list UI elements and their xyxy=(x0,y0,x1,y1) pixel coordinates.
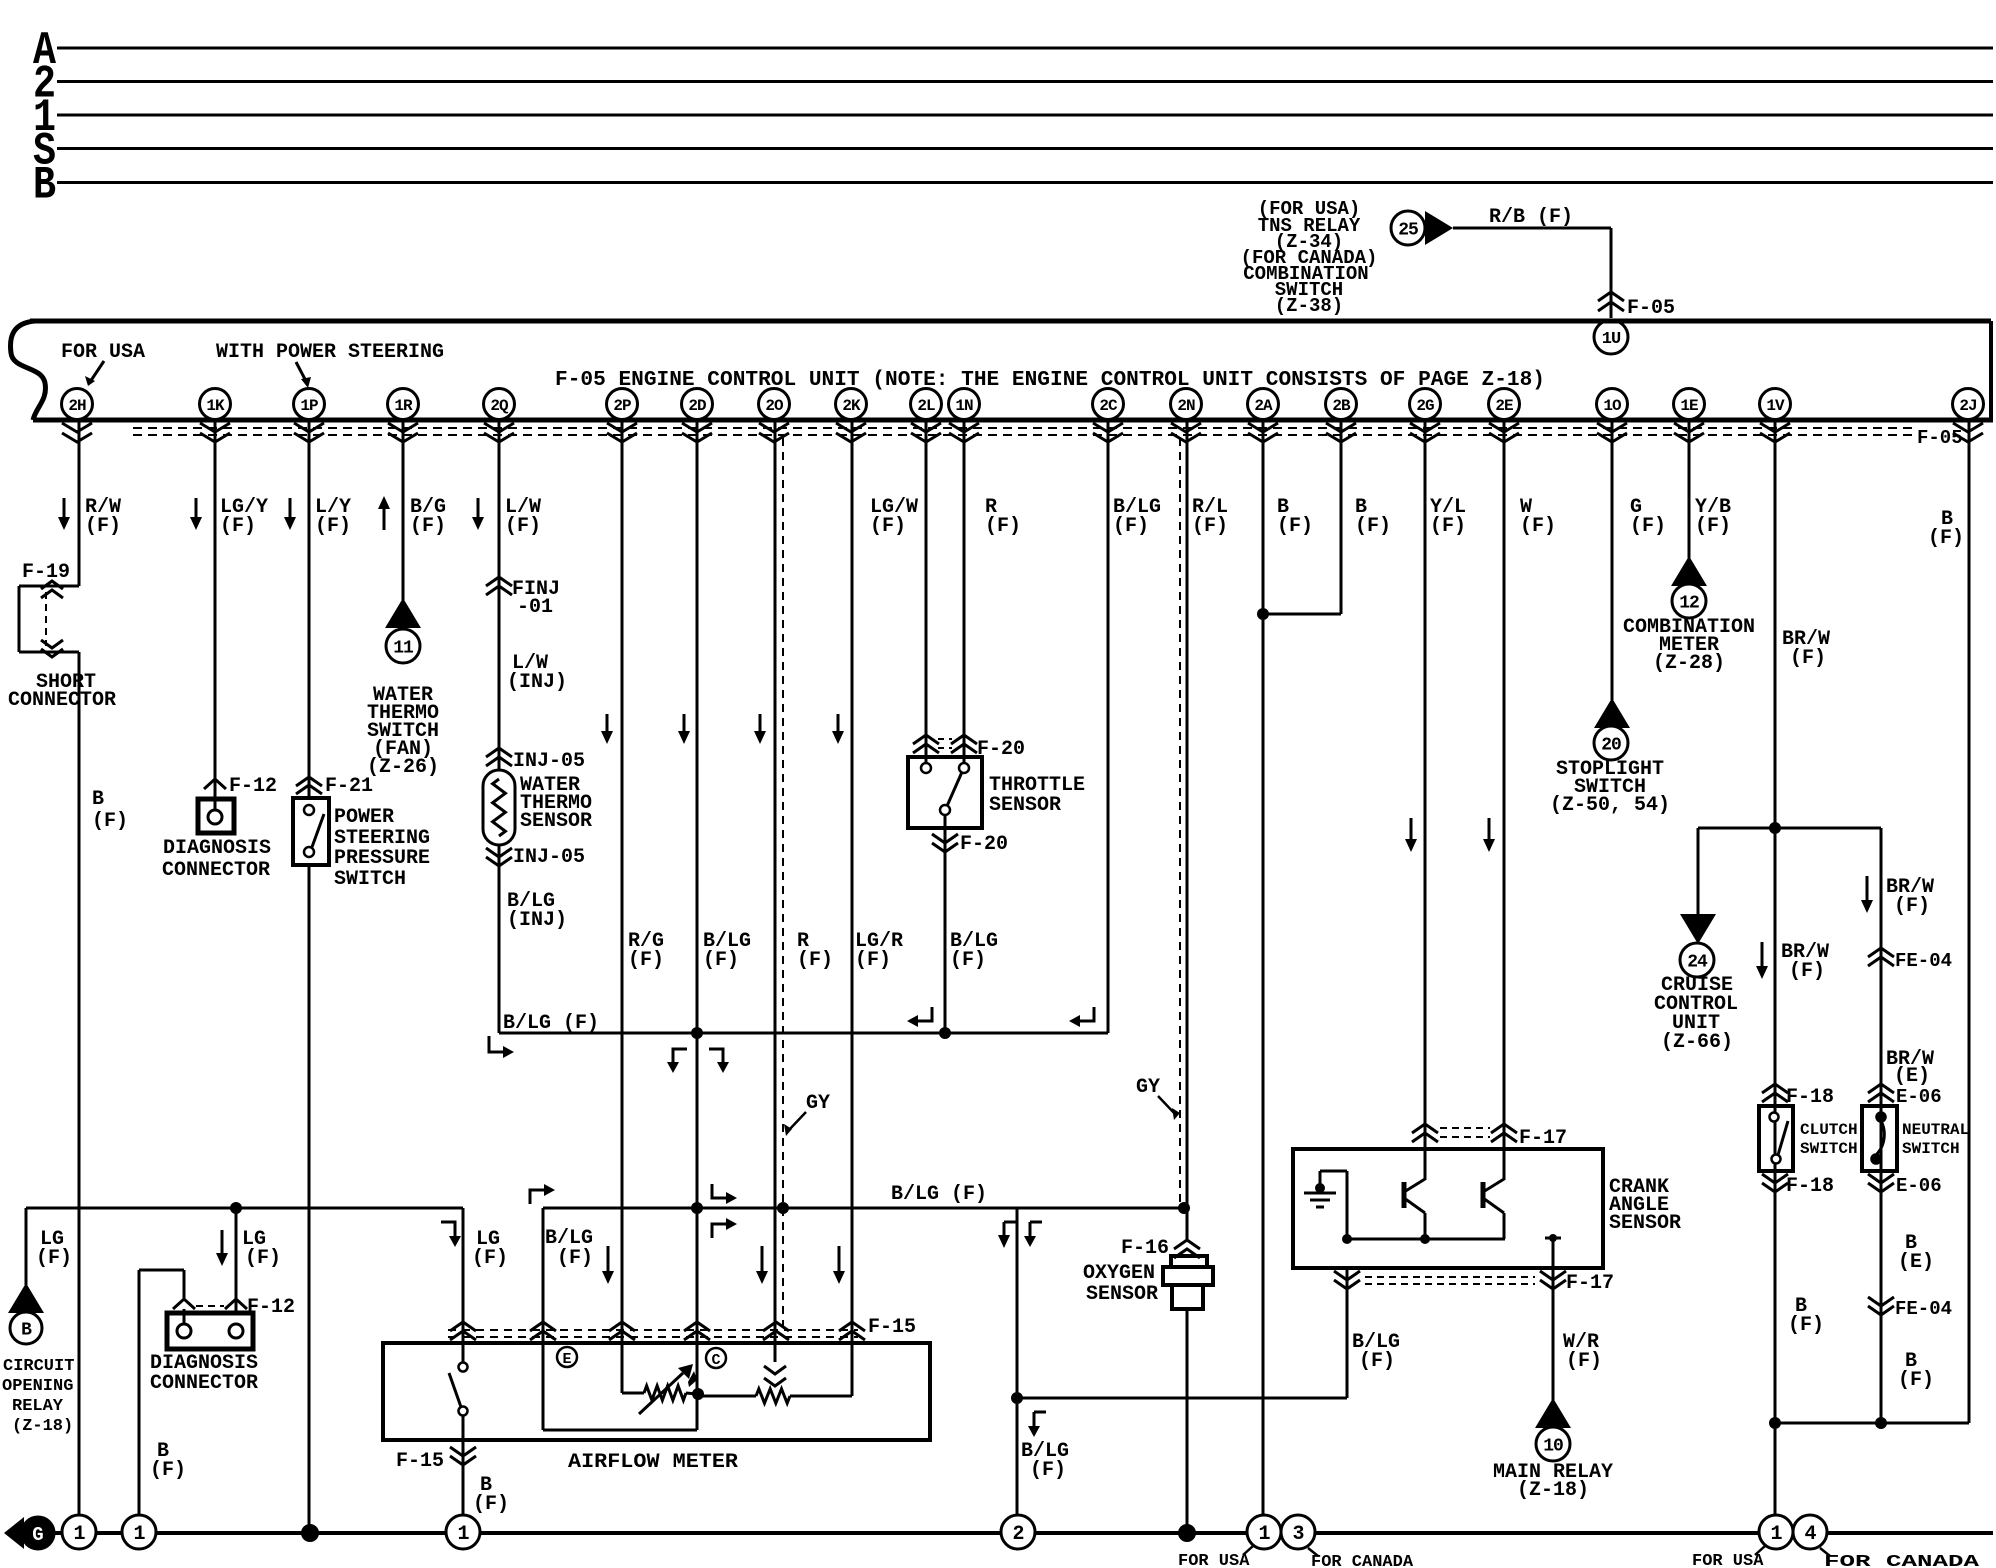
label BR/W (E) xyxy=(1886,1048,1934,1088)
junction 2D at main bus xyxy=(691,1202,703,1214)
svg-text:-01: -01 xyxy=(517,596,553,619)
connector chevrons at pin 1E xyxy=(1674,423,1704,442)
page connector 20 stoplight switch xyxy=(1594,698,1630,760)
page connector 11 water thermo switch xyxy=(385,598,421,663)
junction 2D at B/LG bus xyxy=(691,1027,703,1039)
svg-text:1O: 1O xyxy=(1603,397,1622,415)
svg-text:(F): (F) xyxy=(950,949,986,972)
wire 2J vertical B xyxy=(1968,420,1971,1423)
label BR/W (F) neutral xyxy=(1886,876,1934,918)
arrow down on 2G xyxy=(1405,818,1417,852)
svg-text:(F): (F) xyxy=(1566,1350,1602,1373)
label NEUTRAL SWITCH xyxy=(1902,1121,1969,1158)
label R (F) on 1N xyxy=(985,496,1021,538)
wire oxygen to ground bus xyxy=(1186,1309,1189,1533)
connector chevrons at pin 2O xyxy=(759,423,789,442)
svg-text:(Z-66): (Z-66) xyxy=(1661,1031,1733,1054)
connector F-16 xyxy=(1121,1237,1200,1260)
connector F-12 upper xyxy=(204,775,277,798)
ECU pin 1N xyxy=(949,389,980,420)
label LG (F) diagnosis xyxy=(242,1228,281,1270)
node 1U xyxy=(1594,320,1628,354)
svg-text:1U: 1U xyxy=(1602,330,1621,349)
label WATER THERMO SENSOR xyxy=(520,774,592,833)
label OXYGEN SENSOR xyxy=(1083,1262,1158,1306)
ECU pin 2A xyxy=(1248,389,1279,420)
label FOR CANADA left xyxy=(1308,1548,1414,1568)
svg-text:(Z-28): (Z-28) xyxy=(1653,652,1725,675)
connector F-21 xyxy=(296,775,373,798)
corner marker at oxygen drop left xyxy=(998,1222,1016,1248)
ruler line 1 xyxy=(33,92,1993,144)
svg-text:E: E xyxy=(562,1351,571,1368)
label R (F) mid 2O xyxy=(797,930,833,972)
label MAIN RELAY (Z-18) xyxy=(1493,1461,1613,1502)
svg-text:B: B xyxy=(33,160,56,212)
svg-text:2: 2 xyxy=(1012,1523,1023,1546)
svg-text:F-17: F-17 xyxy=(1519,1127,1567,1150)
wire neutral branch BR/W xyxy=(1880,828,1883,1423)
water thermo sensor xyxy=(483,770,515,845)
ECU pin 2O xyxy=(759,389,790,420)
svg-text:AIRFLOW METER: AIRFLOW METER xyxy=(568,1451,738,1474)
svg-text:(F): (F) xyxy=(472,1247,508,1270)
svg-text:F-19: F-19 xyxy=(22,561,70,584)
svg-text:F-15: F-15 xyxy=(868,1316,916,1339)
label R/W (F) xyxy=(85,496,121,538)
airflow meter box xyxy=(383,1343,930,1440)
shield dashed GY left xyxy=(782,438,784,1330)
svg-text:B: B xyxy=(21,1320,32,1340)
label B/G (F) xyxy=(410,496,446,538)
connector F-15 chevron at x=463 xyxy=(450,1322,476,1340)
svg-text:2A: 2A xyxy=(1254,397,1273,415)
ECU pin 2E xyxy=(1489,389,1520,420)
svg-text:1: 1 xyxy=(1770,1523,1782,1546)
svg-text:CONNECTOR: CONNECTOR xyxy=(162,859,270,882)
connector F-15 dashed bus xyxy=(448,1316,916,1339)
connector chevrons at pin 1O xyxy=(1597,423,1627,442)
svg-text:F-18: F-18 xyxy=(1786,1175,1834,1198)
svg-text:1E: 1E xyxy=(1680,397,1698,415)
label Y/L (F) xyxy=(1430,496,1466,538)
label STOPLIGHT SWITCH (Z-50, 54) xyxy=(1550,758,1670,817)
connector chevrons at pin 1R xyxy=(388,423,418,442)
page connector 25 to TNS relay xyxy=(1391,211,1453,245)
wire drop to diagnosis connector xyxy=(235,1208,238,1313)
junction ground at internal bus xyxy=(1342,1234,1352,1244)
svg-text:CIRCUIT: CIRCUIT xyxy=(3,1357,74,1376)
label CRANK ANGLE SENSOR xyxy=(1609,1176,1681,1235)
short connector F-19 jog xyxy=(19,581,79,657)
svg-text:F-15: F-15 xyxy=(396,1450,444,1473)
svg-text:INJ-05: INJ-05 xyxy=(513,846,585,869)
power steering pressure switch xyxy=(293,798,329,865)
svg-text:2B: 2B xyxy=(1332,397,1351,415)
connector chevrons at pin 2C xyxy=(1093,423,1123,442)
label B (F) on 2J xyxy=(1928,508,1964,550)
page connector 24 cruise control xyxy=(1680,914,1716,977)
label F-05 ENGINE CONTROL UNIT title xyxy=(555,369,1545,392)
svg-text:(Z-38): (Z-38) xyxy=(1275,295,1343,317)
svg-text:PRESSURE: PRESSURE xyxy=(334,847,430,870)
connector chevrons at pin 2P xyxy=(607,423,637,442)
svg-text:(F): (F) xyxy=(1695,515,1731,538)
wire 2G vertical Y/L xyxy=(1424,420,1427,1180)
svg-text:4: 4 xyxy=(1804,1523,1816,1546)
svg-text:FOR CANADA: FOR CANADA xyxy=(1824,1553,1980,1568)
svg-text:(Z-18): (Z-18) xyxy=(1517,1479,1589,1502)
connector F-15 chevron at x=776 xyxy=(763,1322,789,1340)
label B (F) on 2H xyxy=(92,788,128,833)
arrow down on 1P wire xyxy=(284,498,296,530)
svg-text:(Z-26): (Z-26) xyxy=(367,756,439,779)
label LG/W (F) xyxy=(870,496,918,538)
svg-text:(F): (F) xyxy=(855,949,891,972)
svg-text:2D: 2D xyxy=(688,397,706,415)
wire 2H vertical B(F) xyxy=(78,420,81,1515)
ECU pin 2P xyxy=(607,389,638,420)
crank angle sensor box xyxy=(1293,1149,1603,1268)
arrow down on 2H wire xyxy=(58,498,70,530)
svg-text:1R: 1R xyxy=(394,397,413,415)
corner marker at 2Q bus start xyxy=(489,1036,514,1058)
label L/W (F) xyxy=(505,496,541,538)
connector INJ-05 lower xyxy=(486,846,585,869)
junction wiper at 2D xyxy=(692,1388,704,1400)
label L/Y (F) xyxy=(315,496,351,538)
label SHORT CONNECTOR xyxy=(8,671,116,712)
junction neutral at horizontal xyxy=(1875,1417,1887,1429)
svg-text:(F): (F) xyxy=(85,515,121,538)
svg-text:(Z-18): (Z-18) xyxy=(12,1417,73,1436)
svg-text:1: 1 xyxy=(1258,1523,1270,1546)
ECU pin 1V xyxy=(1760,389,1791,420)
ECU pin 2K xyxy=(836,389,867,420)
wire LG into airflow meter xyxy=(462,1208,465,1363)
neutral switch xyxy=(1862,1106,1897,1171)
wire 2K vertical LG/R xyxy=(851,420,854,1396)
svg-text:POWER: POWER xyxy=(334,806,394,829)
label FOR USA left xyxy=(1178,1546,1253,1568)
svg-text:2C: 2C xyxy=(1099,397,1118,415)
svg-text:RELAY: RELAY xyxy=(12,1397,64,1416)
svg-text:24: 24 xyxy=(1687,952,1708,972)
svg-text:25: 25 xyxy=(1398,220,1418,240)
svg-text:2N: 2N xyxy=(1177,397,1195,415)
wire B/LG drop to circle 2 xyxy=(1016,1208,1019,1516)
arrow down mid on 2O xyxy=(754,714,766,744)
corner marker below main bus xyxy=(712,1218,737,1238)
connector chevrons at pin 2B xyxy=(1326,423,1356,442)
corner marker below B/LG drop xyxy=(1028,1412,1046,1437)
corner marker LG bus turn down xyxy=(441,1222,461,1247)
svg-text:11: 11 xyxy=(393,638,414,658)
ECU pin 2B xyxy=(1326,389,1357,420)
clutch switch xyxy=(1759,1106,1793,1171)
connector F-15 below switch xyxy=(396,1447,476,1473)
svg-text:2G: 2G xyxy=(1416,397,1434,415)
svg-text:2L: 2L xyxy=(917,397,935,415)
svg-text:FE-04: FE-04 xyxy=(1895,1298,1952,1320)
wire airflow switch to ground bus xyxy=(462,1415,465,1516)
svg-text:CONNECTOR: CONNECTOR xyxy=(8,689,116,712)
connector chevrons at pin 1P xyxy=(294,423,324,442)
connector F-12 lower xyxy=(173,1296,295,1319)
airflow switch xyxy=(449,1363,468,1416)
connector chevrons at pin 1K xyxy=(200,423,230,442)
svg-text:(E): (E) xyxy=(1898,1251,1934,1274)
svg-text:(F): (F) xyxy=(473,1493,509,1516)
label COMBINATION METER (Z-28) xyxy=(1623,616,1755,675)
label B/LG (F) crank xyxy=(1352,1331,1400,1373)
wire to cruise control xyxy=(1697,828,1700,916)
label B (F) lower left xyxy=(150,1440,186,1482)
variable resistor (airflow) xyxy=(622,1386,697,1400)
svg-text:1V: 1V xyxy=(1766,397,1785,415)
corner marker above main bus xyxy=(712,1184,737,1204)
label FOR USA with arrow to pin 2H xyxy=(61,341,145,386)
connector chevrons at pin 2D xyxy=(682,423,712,442)
svg-text:20: 20 xyxy=(1601,735,1621,755)
svg-text:2J: 2J xyxy=(1959,397,1976,415)
wire 2P vertical R/G xyxy=(621,420,624,1393)
ECU pin 2H xyxy=(62,389,93,420)
label B (E) xyxy=(1898,1232,1934,1274)
connector F-20 lower xyxy=(932,833,1008,856)
label THROTTLE SENSOR xyxy=(989,774,1085,817)
svg-text:10: 10 xyxy=(1543,1436,1563,1456)
connector F-18 upper xyxy=(1762,1084,1834,1109)
svg-text:(F): (F) xyxy=(557,1247,593,1270)
svg-text:R/B (F): R/B (F) xyxy=(1489,206,1573,229)
wire 2C vertical B/LG xyxy=(1107,420,1110,1033)
svg-text:(F): (F) xyxy=(1928,527,1964,550)
svg-text:SENSOR: SENSOR xyxy=(1609,1212,1681,1235)
svg-text:SENSOR: SENSOR xyxy=(1086,1283,1158,1306)
node 1 on diagnosis B xyxy=(122,1515,156,1549)
arrow down mid on 2K xyxy=(832,714,844,744)
wire 2L vertical LG/W xyxy=(925,420,928,768)
connector F-15 chevron at x=852 xyxy=(839,1322,865,1340)
svg-text:F-16: F-16 xyxy=(1121,1237,1169,1260)
svg-text:(F): (F) xyxy=(1790,647,1826,670)
svg-text:1K: 1K xyxy=(206,397,225,415)
wire R/B from 25 to pin 1U xyxy=(1453,228,1611,318)
ECU pin 1E xyxy=(1674,389,1705,420)
svg-text:(F): (F) xyxy=(1030,1459,1066,1482)
wire B (F) from diagnosis to ground bus xyxy=(139,1270,184,1515)
svg-text:12: 12 xyxy=(1679,593,1699,613)
svg-text:(F): (F) xyxy=(870,515,906,538)
wire branch to cruise and neutral xyxy=(1698,827,1881,830)
svg-text:(INJ): (INJ) xyxy=(507,671,567,694)
label BR/W (F) upper xyxy=(1782,628,1830,670)
svg-text:(F): (F) xyxy=(703,949,739,972)
svg-text:SENSOR: SENSOR xyxy=(520,810,592,833)
wire 1R vertical B/G xyxy=(402,420,405,600)
svg-text:(F): (F) xyxy=(1630,515,1666,538)
arrow down on 2Q wire xyxy=(472,498,484,530)
svg-text:E-06: E-06 xyxy=(1896,1086,1942,1108)
svg-text:(F): (F) xyxy=(1788,1314,1824,1337)
wire LG bus left xyxy=(26,1207,463,1210)
label W (F) xyxy=(1520,496,1556,538)
label F-19 xyxy=(22,561,70,584)
label GY right with pointer xyxy=(1136,1076,1180,1120)
svg-text:1: 1 xyxy=(73,1523,85,1546)
svg-text:2Q: 2Q xyxy=(490,397,509,415)
wire W/R inside crank sensor xyxy=(1545,1234,1561,1290)
svg-text:(F): (F) xyxy=(220,515,256,538)
svg-text:1P: 1P xyxy=(300,397,318,415)
node 1 on airflow B xyxy=(446,1515,480,1549)
svg-text:OXYGEN: OXYGEN xyxy=(1083,1262,1155,1285)
junction 1V branch xyxy=(1769,822,1781,834)
svg-text:(F): (F) xyxy=(985,515,1021,538)
ruler line S xyxy=(33,126,1993,178)
label R/B (F) xyxy=(1489,206,1573,229)
wire B/LG from crank sensor xyxy=(1017,1268,1347,1398)
arrow down lower on 2O xyxy=(756,1246,768,1284)
connector chevrons at pin 2E xyxy=(1489,423,1519,442)
connector chevrons at pin 2L xyxy=(911,423,941,442)
connector FINJ-01 xyxy=(486,577,560,619)
ECU pin 1K xyxy=(200,389,231,420)
wire 2N vertical R/L xyxy=(1186,420,1189,1242)
svg-text:(F): (F) xyxy=(92,810,128,833)
connector FE-04 upper xyxy=(1868,948,1952,972)
svg-text:(F): (F) xyxy=(315,515,351,538)
svg-text:2H: 2H xyxy=(68,397,86,415)
svg-text:(F): (F) xyxy=(1277,515,1313,538)
label R/L (F) xyxy=(1192,496,1228,538)
svg-text:(F): (F) xyxy=(1894,895,1930,918)
oxygen sensor symbol xyxy=(1163,1256,1213,1309)
label CIRCUIT OPENING RELAY (Z-18) xyxy=(2,1357,74,1436)
label DIAGNOSIS CONNECTOR lower xyxy=(150,1352,258,1395)
arrow down on clutch wire xyxy=(1756,942,1768,979)
svg-text:(F): (F) xyxy=(1359,1350,1395,1373)
wire 2A vertical B xyxy=(1262,420,1265,1516)
wire 2E vertical W xyxy=(1503,420,1506,1180)
arrow down mid on 2D xyxy=(678,714,690,744)
ECU pin 2G xyxy=(1410,389,1441,420)
ruler line A xyxy=(33,25,1993,77)
arrow down on 2E xyxy=(1483,818,1495,852)
ECU pin 1O xyxy=(1597,389,1628,420)
svg-text:2K: 2K xyxy=(842,397,861,415)
svg-text:B/LG (F): B/LG (F) xyxy=(891,1183,987,1206)
arrow down lower on 2K xyxy=(833,1246,845,1284)
connector chevrons at pin 2J xyxy=(1953,423,1983,442)
svg-text:C: C xyxy=(711,1352,720,1369)
wire 1P vertical L/Y xyxy=(308,420,311,1533)
label W/R (F) xyxy=(1563,1331,1602,1373)
arrow down lower on 2P xyxy=(602,1246,614,1284)
junction transistor1 at internal bus xyxy=(1420,1234,1430,1244)
wire 2D vertical B/LG xyxy=(696,420,699,1430)
svg-text:(F): (F) xyxy=(1520,515,1556,538)
corner marker 2C to bus left xyxy=(907,1007,932,1027)
label BR/W (F) clutch xyxy=(1781,941,1829,983)
svg-text:F-21: F-21 xyxy=(325,775,373,798)
label GY left with pointer xyxy=(784,1092,830,1136)
label DIAGNOSIS CONNECTOR upper xyxy=(162,837,271,882)
svg-text:F-17: F-17 xyxy=(1566,1272,1614,1295)
label B/LG (INJ) xyxy=(507,890,567,932)
svg-text:(INJ): (INJ) xyxy=(507,909,567,932)
label LG (F) airflow xyxy=(472,1228,508,1270)
connector chevrons at pin 2N xyxy=(1171,423,1201,442)
corner markers below B/LG junction xyxy=(667,1049,729,1073)
node 3 adjacent xyxy=(1281,1515,1315,1549)
label LG (F) left xyxy=(36,1228,72,1270)
ECU pin 2N xyxy=(1171,389,1202,420)
svg-text:(F): (F) xyxy=(245,1247,281,1270)
wire 1K vertical LG/Y xyxy=(214,420,217,800)
diagnosis connector upper box xyxy=(198,799,234,833)
label LG/R (F) xyxy=(855,930,903,972)
corner marker at oxygen drop right xyxy=(1024,1222,1042,1247)
junction diagnosis drop at LG bus xyxy=(230,1202,242,1214)
svg-text:(F): (F) xyxy=(628,949,664,972)
node 4 adjacent xyxy=(1793,1515,1827,1549)
svg-text:(F): (F) xyxy=(1192,515,1228,538)
label B/LG (F) below throttle xyxy=(950,930,998,972)
connector chevrons at pin 2G xyxy=(1410,423,1440,442)
node E label xyxy=(557,1347,577,1368)
connector F-18 lower xyxy=(1762,1174,1834,1198)
junction clutch at horizontal xyxy=(1769,1417,1781,1429)
svg-text:(F): (F) xyxy=(150,1459,186,1482)
svg-text:2O: 2O xyxy=(765,397,784,415)
wire B/LG main bus xyxy=(543,1207,1187,1210)
label Y/B (F) xyxy=(1695,496,1731,538)
shield dashed GY right xyxy=(1179,438,1181,1205)
connector chevrons at pin 2Q xyxy=(484,423,514,442)
svg-text:F-20: F-20 xyxy=(977,738,1025,761)
label B/LG (F) at drop xyxy=(1021,1440,1069,1482)
wire E loop xyxy=(543,1208,697,1430)
junction throttle at B/LG bus xyxy=(939,1027,951,1039)
corner marker 2C to bus right xyxy=(1069,1007,1094,1027)
svg-text:G: G xyxy=(32,1524,43,1546)
transistor Q2 xyxy=(1483,1179,1504,1239)
note TNS relay / combination switch xyxy=(1241,198,1378,317)
connector F-15 chevron at x=622 xyxy=(609,1322,635,1340)
wire throttle output B/LG xyxy=(944,815,947,1033)
label B (F) airflow xyxy=(473,1474,509,1516)
svg-text:SWITCH: SWITCH xyxy=(1800,1140,1858,1158)
ground bus G xyxy=(52,1531,1993,1535)
svg-text:CLUTCH: CLUTCH xyxy=(1800,1121,1858,1139)
connector F-15 chevron at x=697 xyxy=(684,1322,710,1340)
svg-text:CONNECTOR: CONNECTOR xyxy=(150,1372,258,1395)
wire LG to circuit opening relay xyxy=(25,1208,28,1285)
label FOR CANADA right xyxy=(1820,1548,1980,1568)
wire 2B vertical B xyxy=(1263,420,1341,614)
label R/G (F) xyxy=(628,930,664,972)
wire 1O vertical G xyxy=(1611,420,1614,700)
node 1 on 2A xyxy=(1247,1515,1281,1549)
node C label xyxy=(706,1348,726,1369)
label B/LG (F) above bus xyxy=(503,1012,599,1035)
svg-text:OPENING: OPENING xyxy=(2,1377,73,1396)
label CRUISE CONTROL UNIT (Z-66) xyxy=(1654,974,1738,1054)
connector F-05 dashed bus under ECU xyxy=(133,427,1963,449)
label L/W (INJ) xyxy=(507,652,567,694)
